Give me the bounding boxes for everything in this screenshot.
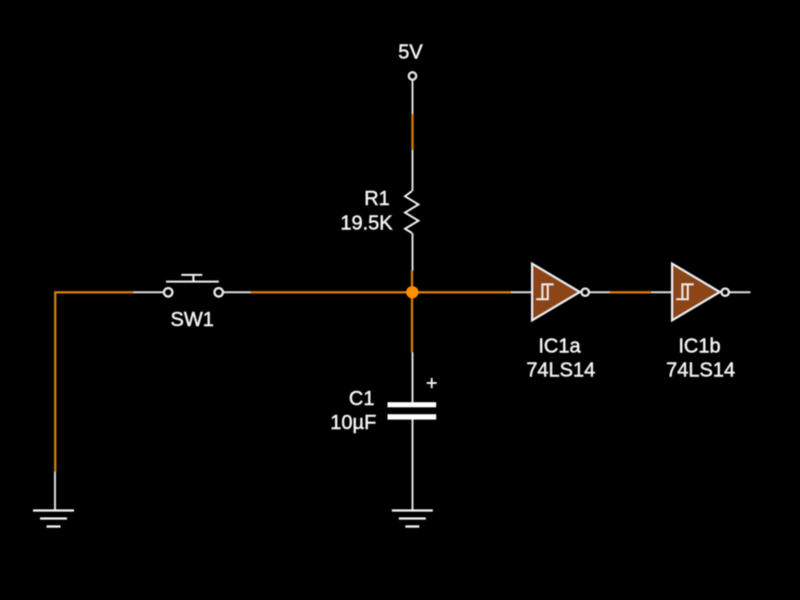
svg-text:SW1: SW1	[171, 309, 214, 331]
svg-text:IC1b: IC1b	[678, 335, 720, 357]
svg-text:74LS14: 74LS14	[666, 359, 735, 381]
svg-text:C1: C1	[349, 388, 375, 410]
svg-text:5V: 5V	[398, 42, 423, 64]
svg-text:IC1a: IC1a	[538, 335, 581, 357]
svg-text:74LS14: 74LS14	[526, 360, 595, 382]
svg-text:10µF: 10µF	[330, 412, 376, 434]
svg-text:19.5K: 19.5K	[340, 212, 393, 234]
svg-text:R1: R1	[364, 188, 390, 210]
